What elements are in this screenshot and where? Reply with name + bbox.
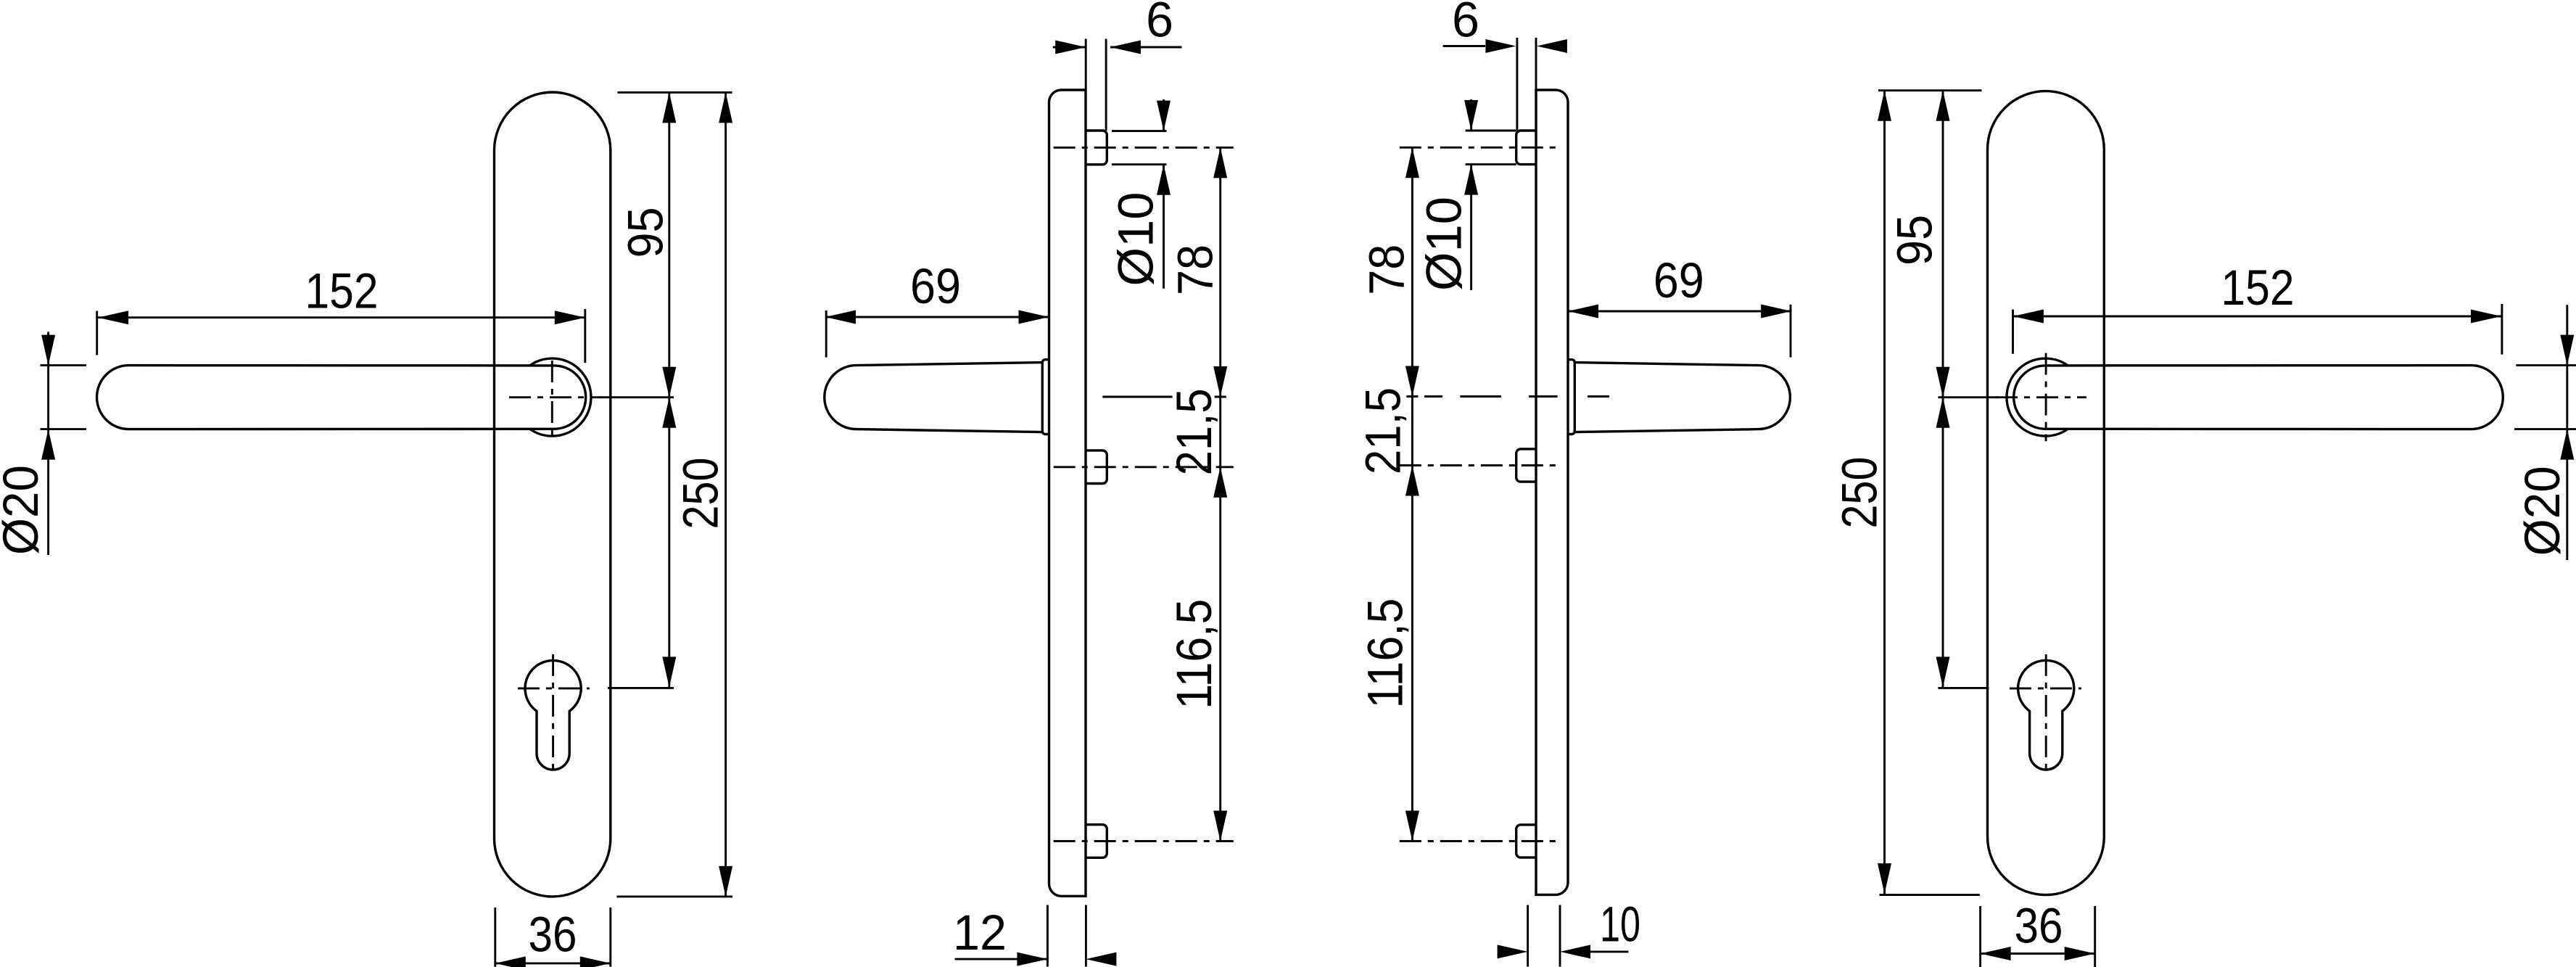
svg-text:116,5: 116,5 xyxy=(1358,598,1413,709)
view3 dim 116,5 top arrow xyxy=(1405,466,1419,496)
view1 dim O20 lower extension line xyxy=(41,428,87,430)
view2 middle boss center line xyxy=(1054,466,1234,468)
view2 dim O10 upper shaft xyxy=(1163,99,1165,131)
svg-text:69: 69 xyxy=(1654,252,1704,308)
view1 axis-to-cylinder top arrow xyxy=(662,398,676,428)
view1 dim O20 upper shaft xyxy=(47,332,49,366)
view1 dim 250 top arrow xyxy=(719,92,732,123)
svg-text:21,5: 21,5 xyxy=(1355,387,1411,474)
svg-text:69: 69 xyxy=(910,258,961,314)
view4 handle hub collar circle arc xyxy=(2007,358,2068,436)
view1 axis-to-cylinder bottom arrow xyxy=(662,657,676,687)
view3 dim O10 upper shaft xyxy=(1470,99,1472,131)
view4 dim line 250 xyxy=(1883,91,1886,894)
svg-text:36: 36 xyxy=(529,907,577,963)
view2 middle screw boss xyxy=(1086,450,1107,484)
view3 dim 6 right arrow xyxy=(1537,39,1567,53)
svg-text:95: 95 xyxy=(1887,215,1943,266)
view4 plate top extension line xyxy=(1878,89,1982,91)
svg-text:152: 152 xyxy=(305,263,379,319)
view1 dim 152 right extension line xyxy=(584,309,586,363)
view2 handle axis tick at dim line xyxy=(1215,396,1226,398)
svg-text:152: 152 xyxy=(2221,260,2295,316)
view2 dim O10 lower shaft xyxy=(1163,165,1165,289)
view1 dim 95 bottom arrow xyxy=(662,367,676,398)
view1 dim line 36 xyxy=(495,962,611,964)
view1 dim 250 bottom arrow xyxy=(719,866,732,897)
view3 dim 10 right arrow xyxy=(1560,945,1590,958)
view2 dim 69 left arrow xyxy=(825,310,856,324)
view4 hub horizontal center line xyxy=(1996,396,2086,398)
view2 dim 12 left extension line xyxy=(1046,905,1049,967)
view4 dim O20 lower extension line xyxy=(2514,428,2576,430)
view2 dim line 69 xyxy=(825,316,1049,318)
view4 cylinder vertical center line xyxy=(2045,654,2047,775)
view4 dim 152 right extension line xyxy=(2501,304,2503,355)
view1 dim line 152 xyxy=(98,316,585,318)
view4 dim 95 top arrow xyxy=(1936,91,1950,121)
view2 dim 12 line left tail xyxy=(955,958,1048,960)
view1 dim O20 upper extension line xyxy=(41,364,87,366)
view4 dim O20 upper shaft xyxy=(2566,305,2568,365)
view3 top boss center line xyxy=(1400,147,1561,149)
view4 dim line 36 xyxy=(1981,952,2095,955)
view3 dim 6 left extension line xyxy=(1516,38,1518,131)
view1 dim 36 left extension line xyxy=(494,908,496,967)
view2 dim 12 right arrow xyxy=(1086,952,1116,966)
view4 dim O20 middle segment xyxy=(2566,366,2568,429)
view2 dim 116,5 bottom arrow xyxy=(1213,811,1227,842)
view2 bottom boss center line xyxy=(1054,840,1234,842)
view4 euro profile cylinder hole xyxy=(2018,660,2074,770)
view3 dim 6 line left tail xyxy=(1443,45,1485,47)
svg-text:250: 250 xyxy=(1832,457,1888,529)
view1 dim 36 right arrow xyxy=(580,956,611,967)
view1 dim 36 left arrow xyxy=(495,956,526,967)
view1 handle axis extension line xyxy=(600,396,674,398)
view3 chain dim line 78+21,5+116,5 xyxy=(1411,147,1413,841)
view2 handle neck collar xyxy=(1042,360,1049,435)
view3 dim 69 extension line xyxy=(1790,305,1792,358)
view4 dim 36 right arrow xyxy=(2065,947,2095,960)
view3 handle neck collar xyxy=(1568,360,1574,435)
view1 dim 95 top arrow xyxy=(662,92,676,123)
view4 dim 152 left arrow xyxy=(2013,310,2044,324)
view4 dim 36 left extension line xyxy=(1979,906,1981,967)
view4 plate bottom extension line xyxy=(1880,894,1980,896)
view3 backplate side profile (10mm) xyxy=(1536,90,1568,894)
view4 dim O20 lower arrow xyxy=(2560,429,2574,460)
view1 dim O20 lower shaft xyxy=(47,429,49,555)
view3 bottom screw boss xyxy=(1516,825,1536,857)
view2 dim O10 upper extension line xyxy=(1112,130,1167,132)
svg-text:250: 250 xyxy=(673,458,729,530)
view3 bottom boss center line xyxy=(1400,840,1561,842)
view2 dim 116,5 top arrow xyxy=(1213,467,1227,498)
view1 dim 152 right arrow xyxy=(555,310,585,324)
view2 dim O10 lower arrow xyxy=(1157,165,1171,195)
view3 dim 78 bottom arrow xyxy=(1405,366,1419,397)
view3 dim O10 upper arrow xyxy=(1464,100,1478,131)
svg-text:Ø10: Ø10 xyxy=(1416,197,1472,291)
view3 dim 10 left extension line xyxy=(1527,905,1529,967)
view2 dim 6 right extension line xyxy=(1105,39,1107,131)
view3 dim line 69 xyxy=(1568,310,1791,313)
view2 dim 6 right arrow xyxy=(1110,41,1141,54)
view4 dim O20 lower shaft xyxy=(2566,429,2568,560)
view3 middle screw boss xyxy=(1516,449,1536,482)
view2 handle axis center line dash xyxy=(1102,396,1172,398)
view3 dim 69 right arrow xyxy=(1761,305,1791,318)
view3 middle boss center line xyxy=(1400,464,1561,466)
view3 handle axis center line dash 2 xyxy=(1588,395,1609,398)
view2 top screw boss xyxy=(1086,131,1107,165)
view4 cylinder horizontal center line xyxy=(2010,687,2081,689)
view4 cylinder center extension line xyxy=(1938,687,1989,689)
svg-text:10: 10 xyxy=(1600,897,1640,952)
view4 axis-to-cylinder top arrow xyxy=(1936,398,1950,428)
view3 dim 6 left arrow xyxy=(1485,39,1516,53)
view1 dim line axis-to-cylinder xyxy=(668,398,670,688)
svg-text:21,5: 21,5 xyxy=(1166,388,1222,475)
view4 dim O20 upper extension line xyxy=(2516,364,2576,366)
view3 top screw boss xyxy=(1516,131,1536,165)
view3 handle axis center line dash 0 xyxy=(1424,395,1442,398)
view4 dim 95 bottom arrow xyxy=(1936,367,1950,398)
view3 dim 10 line right tail xyxy=(1590,950,1628,952)
view1 backplate outline (stadium 36x250) xyxy=(495,92,611,897)
view3 handle axis tick at dim line xyxy=(1406,395,1418,398)
view4 axis-to-cylinder bottom arrow xyxy=(1936,657,1950,687)
svg-text:Ø20: Ø20 xyxy=(2514,466,2570,556)
view3 dim 69 left arrow xyxy=(1568,305,1598,318)
view1 euro profile cylinder hole xyxy=(525,660,581,770)
view2 bottom screw boss xyxy=(1086,825,1107,858)
view3 dim 78 top arrow xyxy=(1405,147,1419,178)
view2 handle grip profile xyxy=(825,363,1043,432)
view1 dim 36 right extension line xyxy=(609,908,611,967)
view3 dim O10 lower extension line xyxy=(1466,163,1516,165)
view2 dim 6 left arrow xyxy=(1055,41,1086,54)
view3 dim 10 right extension line xyxy=(1559,905,1561,967)
view4 dim line 152 xyxy=(2013,316,2501,318)
view2 backplate side profile (12mm) xyxy=(1049,90,1086,896)
view1 cylinder vertical center line xyxy=(552,654,554,775)
view1 dim line 95 xyxy=(668,92,670,397)
view2 dim O10 lower extension line xyxy=(1112,163,1167,165)
view1 plate bottom extension line xyxy=(616,895,732,897)
view2 dim 6 line right part xyxy=(1110,46,1182,49)
view1 hub vertical center line xyxy=(551,361,553,441)
view4 dim 36 right extension line xyxy=(2094,906,2096,967)
view1 dim O20 middle segment xyxy=(47,366,49,429)
view4 dim 152 left extension line xyxy=(2012,310,2014,354)
view1 dim line 250 xyxy=(724,92,727,897)
view4 hub vertical center line xyxy=(2045,353,2047,442)
svg-text:78: 78 xyxy=(1358,244,1414,295)
view3 dim 10 left arrow xyxy=(1498,945,1528,958)
view1 cylinder center extension line xyxy=(608,687,674,689)
view4 backplate outline (stadium 36x250) xyxy=(1988,91,2105,895)
svg-text:116,5: 116,5 xyxy=(1166,599,1222,709)
view4 dim 250 top arrow xyxy=(1878,91,1891,121)
view2 dim 6 left extension line xyxy=(1085,39,1087,91)
view4 dim line axis-to-cylinder xyxy=(1942,398,1944,688)
view1 dim 152 left arrow xyxy=(98,310,128,324)
svg-text:78: 78 xyxy=(1168,244,1223,295)
view2 dim 78 top arrow xyxy=(1213,147,1227,178)
view2 dim 69 extension line xyxy=(825,310,827,358)
view1 handle hub collar circle arc xyxy=(530,358,591,436)
svg-text:95: 95 xyxy=(618,207,674,258)
view2 dim O10 upper arrow xyxy=(1157,101,1171,131)
view3 dim 6 right extension line xyxy=(1535,38,1537,90)
view1 hub horizontal center line xyxy=(509,396,602,398)
view2 chain dim line 78+21,5+116,5 xyxy=(1219,147,1221,841)
view2 dim 69 right arrow xyxy=(1019,310,1049,324)
view1 dim O20 upper arrow xyxy=(41,335,55,366)
svg-text:6: 6 xyxy=(1452,0,1479,48)
view3 handle axis center line dash 1b xyxy=(1529,395,1558,398)
svg-text:Ø20: Ø20 xyxy=(0,465,49,555)
view4 dim O20 upper arrow xyxy=(2560,335,2574,366)
view4 dim line 95 xyxy=(1942,91,1944,398)
view4 dim 152 right arrow xyxy=(2471,310,2501,324)
view1 dim O20 lower arrow xyxy=(41,429,55,460)
view4 lever handle bar (O20, length 152) xyxy=(2014,366,2503,429)
view1 lever handle bar (O20, length 152) xyxy=(97,366,586,429)
view2 dim 12 right extension line xyxy=(1085,905,1087,967)
view3 dim 116,5 bottom arrow xyxy=(1405,811,1419,842)
view4 dim 36 left arrow xyxy=(1981,947,2011,960)
view1 dim 152 left extension line xyxy=(96,311,98,355)
view4 dim 250 bottom arrow xyxy=(1878,863,1891,894)
view3 dim O10 lower arrow xyxy=(1464,165,1478,195)
view2 top boss center line xyxy=(1054,147,1234,149)
view2 dim 78 bottom arrow xyxy=(1213,366,1227,397)
view3 dim O10 lower shaft xyxy=(1470,165,1472,290)
view3 dim O10 upper extension line xyxy=(1466,130,1516,132)
view2 dim 6 line left part xyxy=(1053,46,1086,49)
view3 handle grip profile xyxy=(1574,363,1790,432)
svg-text:6: 6 xyxy=(1146,0,1173,48)
view3 handle axis center line dash xyxy=(1460,395,1501,398)
view2 dim 12 left arrow xyxy=(1017,952,1047,966)
svg-text:36: 36 xyxy=(2015,898,2063,954)
view1 cylinder horizontal center line xyxy=(518,687,590,689)
view4 handle axis extension line xyxy=(1938,396,1998,398)
view1 plate top extension line xyxy=(618,91,732,94)
svg-text:12: 12 xyxy=(953,905,1007,960)
svg-text:Ø10: Ø10 xyxy=(1108,192,1164,287)
